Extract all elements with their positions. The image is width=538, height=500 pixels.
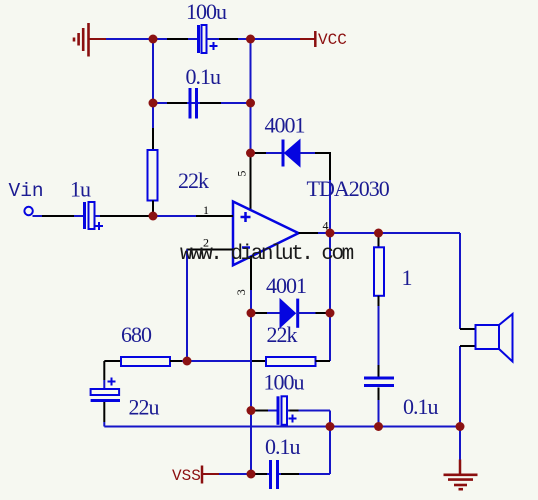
wire: pin stub out of C1 (black)	[219, 38, 238, 40]
svg-text:5: 5	[234, 171, 248, 177]
svg-text:22k: 22k	[178, 168, 209, 193]
svg-text:22u: 22u	[129, 395, 160, 420]
svg-text:1u: 1u	[70, 177, 91, 202]
svg-text:680: 680	[121, 322, 152, 347]
capacitor C7 0.1u (right, vertical)	[364, 378, 439, 427]
svg-text:1: 1	[402, 265, 412, 290]
wire: VCC vertical x=250.5	[250, 39, 252, 155]
wire: left vertical (gnd net) x=153	[152, 39, 154, 128]
svg-text:1: 1	[203, 203, 209, 217]
capacitor C4 22u (electrolytic, vertical)	[91, 378, 160, 427]
wire: input to C3	[33, 215, 85, 217]
wire: diode D1 down to output node	[329, 152, 331, 180]
resistor R1 22k (vertical bias)	[148, 128, 210, 216]
resistor R4 1 (vertical)	[374, 233, 412, 377]
svg-text:100u: 100u	[264, 370, 305, 395]
ground (top-left, sideways)	[74, 23, 89, 57]
wire: pin stub into C1 (black)	[167, 38, 188, 40]
capacitor C5 100u (bottom, electrolytic)	[251, 370, 330, 427]
svg-text:0.1u: 0.1u	[265, 434, 301, 459]
wire: top rail left segment	[106, 38, 167, 40]
svg-text:0.1u: 0.1u	[186, 64, 222, 89]
speaker LS1	[460, 314, 513, 362]
wire: top rail to VCC	[238, 38, 300, 40]
capacitor C3 1u (input, electrolytic)	[70, 177, 103, 231]
output pin 4 wire	[299, 232, 319, 234]
diode D1 4001 (to VCC)	[254, 113, 331, 167]
wire: pin stubs of C2 (black)	[167, 102, 187, 104]
wire: ground stub to rail	[88, 38, 106, 40]
pin 2 wire (black)	[187, 249, 234, 251]
svg-text:4001: 4001	[266, 273, 306, 298]
svg-text:www. dianlut. com: www. dianlut. com	[180, 243, 354, 266]
input terminal circle	[24, 207, 32, 215]
ground (bottom-right)	[444, 427, 478, 490]
wire: feedback vertical x=186	[186, 250, 188, 362]
wire: 0.1u row (y=103)	[153, 102, 251, 104]
capacitor C 100u (top, electrolytic)	[186, 0, 227, 53]
wire: output column x=330 down	[329, 233, 331, 361]
op-amp U1 TDA2030	[233, 176, 390, 265]
svg-text:VCC: VCC	[318, 31, 347, 49]
VSS terminal	[172, 466, 251, 486]
resistor R3 680 (horizontal)	[104, 322, 187, 366]
wire: pin3 column down x=251	[250, 313, 252, 474]
wire: bottom bus y=426.5	[104, 426, 460, 428]
svg-text:100u: 100u	[186, 0, 227, 24]
VCC terminal	[300, 31, 347, 49]
svg-text:TDA2030: TDA2030	[307, 176, 390, 201]
svg-text:Vin: Vin	[9, 180, 44, 202]
pin 5 (black) into op-amp	[250, 155, 252, 210]
wire: 680 left down to C4	[103, 361, 105, 380]
capacitor C6 0.1u (bottom)	[251, 427, 330, 490]
wire: speaker column x=460	[459, 233, 461, 329]
capacitor C2 0.1u (top)	[186, 64, 222, 119]
svg-text:4001: 4001	[265, 113, 305, 138]
wire: junction to pin1	[153, 215, 196, 217]
svg-text:VSS: VSS	[172, 467, 201, 485]
svg-text:0.1u: 0.1u	[403, 394, 439, 419]
diode D2 4001 (to VSS)	[251, 273, 330, 328]
svg-text:22k: 22k	[267, 322, 298, 347]
resistor R2 22k (feedback, horizontal)	[187, 322, 330, 366]
svg-text:3: 3	[234, 289, 248, 295]
wire: C3 to junction (black pin)	[95, 215, 154, 217]
pin 3 (black) below op-amp	[250, 256, 252, 290]
